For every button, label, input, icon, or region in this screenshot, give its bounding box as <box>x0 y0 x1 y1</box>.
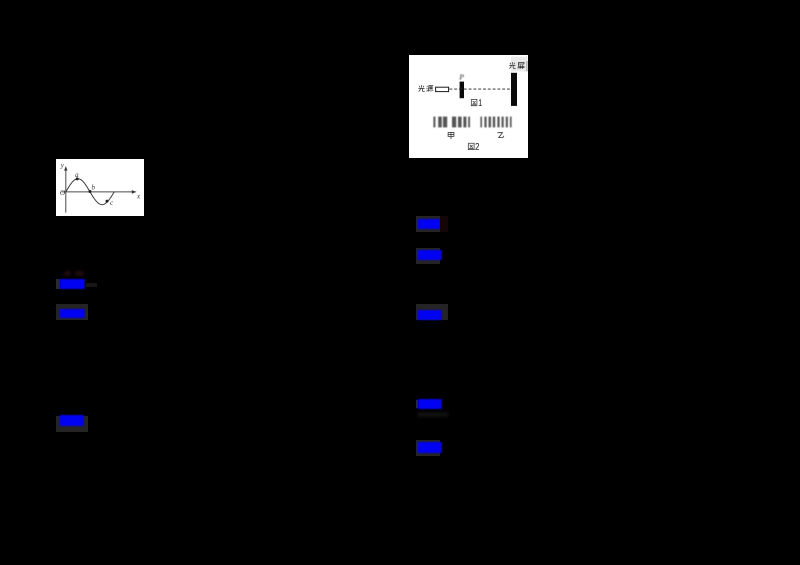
answer badge R5 <box>416 440 440 456</box>
answer badge L2 <box>56 304 88 320</box>
point a (dot on crest) <box>75 178 78 181</box>
label 光屏 (screen) <box>509 62 524 69</box>
label 光源 (light source) <box>418 85 433 92</box>
figure: wave graph (top-left white panel) <box>56 159 144 215</box>
光 <box>509 62 515 69</box>
label 乙 <box>497 132 503 137</box>
answer badge R3 <box>416 304 448 320</box>
dashed axis line <box>449 88 511 90</box>
light gray corner patch <box>511 56 527 71</box>
slit bar P <box>460 81 464 98</box>
svg-text:y: y <box>59 162 64 170</box>
源 <box>427 85 434 91</box>
y-axis <box>64 169 66 213</box>
figure: optics experiment (top-right white panel) <box>409 55 528 158</box>
svg-text:x: x <box>136 193 141 201</box>
point b (dot at axis crossing) <box>88 190 91 193</box>
answer badge R2 <box>416 248 440 264</box>
screen black bar <box>511 72 517 105</box>
fringe pattern 乙 (right) <box>480 116 511 127</box>
point c (dot after trough) <box>105 200 108 203</box>
light source box <box>436 87 449 91</box>
answer badge L1 <box>56 279 60 289</box>
svg-text:O: O <box>59 189 65 198</box>
label 甲 <box>448 132 454 139</box>
屏 <box>518 62 525 69</box>
labels <box>59 162 140 207</box>
x-axis <box>61 191 133 193</box>
scrollbar line <box>526 61 527 71</box>
answer badge R4 <box>416 400 418 408</box>
y-axis arrowhead <box>64 166 67 171</box>
fringe pattern 甲 (left) <box>433 116 470 127</box>
x-axis arrowhead <box>131 190 136 194</box>
answer badge R1 <box>416 216 440 232</box>
svg-text:c: c <box>110 199 114 207</box>
answer badge L3 <box>56 416 88 432</box>
svg-text:P: P <box>458 72 464 81</box>
光 <box>418 85 424 92</box>
sine curve <box>65 179 113 205</box>
label 图1 <box>471 99 481 105</box>
svg-text:b: b <box>91 184 95 192</box>
svg-text:a: a <box>75 171 79 179</box>
label 图2 <box>468 143 479 149</box>
